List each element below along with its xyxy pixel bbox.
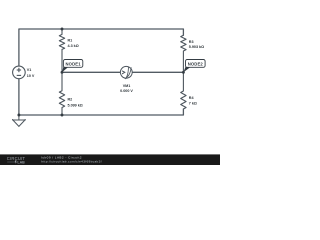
node NODE2 (183, 60, 205, 73)
label R1 value (68, 39, 79, 48)
resistor R1 (59, 29, 64, 72)
svg-text:VM1: VM1 (123, 84, 131, 88)
voltmeter VM1 (120, 66, 132, 79)
svg-text:4.3 kΩ: 4.3 kΩ (68, 44, 79, 48)
footer text lines (41, 155, 102, 163)
svg-text:7 kΩ: 7 kΩ (189, 101, 197, 105)
wire: middle right segment (132, 71, 183, 73)
resistor R4 (181, 72, 186, 109)
svg-text:R2: R2 (68, 98, 73, 102)
svg-text:http://circuitlab.com/c/e43f69: http://circuitlab.com/c/e43f69bcab2f (41, 159, 102, 163)
svg-text:LAB: LAB (17, 161, 25, 165)
node NODE1 (62, 60, 83, 73)
wire: left rail lower (18, 79, 20, 115)
resistor R2 (59, 72, 64, 115)
wire: bottom rail (19, 109, 184, 115)
svg-text:R4: R4 (189, 96, 195, 100)
label VM1 value (120, 84, 133, 93)
label R2 value (68, 98, 83, 108)
svg-text:5.099 kΩ: 5.099 kΩ (68, 103, 83, 107)
footer logo CIRCUIT LAB (7, 156, 26, 165)
svg-text:R3: R3 (189, 40, 194, 44)
svg-text:5.903 kΩ: 5.903 kΩ (189, 45, 204, 49)
label R3 value (189, 40, 204, 49)
ground (13, 115, 26, 126)
svg-text:V1: V1 (27, 68, 32, 72)
svg-text:NODE2: NODE2 (188, 62, 204, 67)
svg-text:10 V: 10 V (27, 74, 35, 78)
wire: top rail (19, 29, 184, 66)
voltage source V1 (13, 66, 26, 79)
footer bar (0, 154, 220, 165)
label R4 value (189, 96, 197, 106)
label V1 value (27, 68, 35, 78)
svg-text:R1: R1 (68, 39, 73, 43)
svg-text:NODE1: NODE1 (66, 62, 82, 67)
wire: middle left segment (62, 71, 121, 73)
resistor R3 (181, 35, 186, 72)
svg-text:0.000 V: 0.000 V (120, 89, 133, 93)
junction dots (17, 28, 184, 117)
